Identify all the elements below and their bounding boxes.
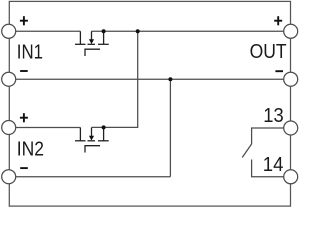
- polarity label - (IN2): [20, 167, 28, 169]
- wire IN2+ to Q2 source: [16, 127, 81, 129]
- terminal circle 13: [284, 121, 298, 135]
- wire IN1+ to Q1 source: [16, 30, 81, 32]
- svg-text:OUT: OUT: [250, 40, 287, 63]
- wire Q2 drain line up to OUT+ bus: [92, 31, 138, 127]
- terminal circle IN2 -: [2, 170, 16, 184]
- junction dot OUT+ bus / Q2 branch: [136, 29, 140, 33]
- junction dot Q1 drain node: [102, 29, 106, 33]
- polarity label + (IN2): [20, 113, 28, 122]
- transistor Q2 (MOSFET, bottom): [75, 127, 109, 152]
- module outline (decorative frame): [9, 1, 290, 206]
- polarity label + (OUT): [274, 16, 282, 25]
- polarity label - (OUT): [275, 70, 283, 72]
- wire terminal 14: [252, 160, 284, 177]
- wire OUT+ bus (Q1 drain line to OUT+): [92, 30, 284, 32]
- wire IN1- to OUT- (minus bus): [16, 78, 284, 80]
- wire IN2-: [16, 176, 171, 178]
- polarity label - (IN1): [20, 70, 28, 72]
- svg-text:IN1: IN1: [17, 41, 43, 64]
- svg-text:13: 13: [263, 104, 283, 127]
- junction dot Q2 drain node: [102, 125, 106, 129]
- terminal circle OUT +: [284, 24, 298, 38]
- junction dot minus bus: [168, 77, 172, 81]
- transistor Q1 (MOSFET, top): [75, 31, 109, 56]
- wire terminal 13: [252, 128, 284, 144]
- switch contact blade (NO contact 13-14): [242, 144, 251, 158]
- terminal circle IN1 -: [2, 72, 16, 86]
- terminal circle 14: [284, 170, 298, 184]
- wire minus bus vertical (OUT- to IN2-): [169, 79, 171, 177]
- terminal circle IN2 +: [2, 121, 16, 135]
- terminal circle IN1 +: [2, 24, 16, 38]
- polarity label + (IN1): [20, 16, 28, 25]
- svg-text:14: 14: [263, 153, 284, 176]
- svg-text:IN2: IN2: [17, 138, 44, 161]
- terminal circle OUT -: [284, 72, 298, 86]
